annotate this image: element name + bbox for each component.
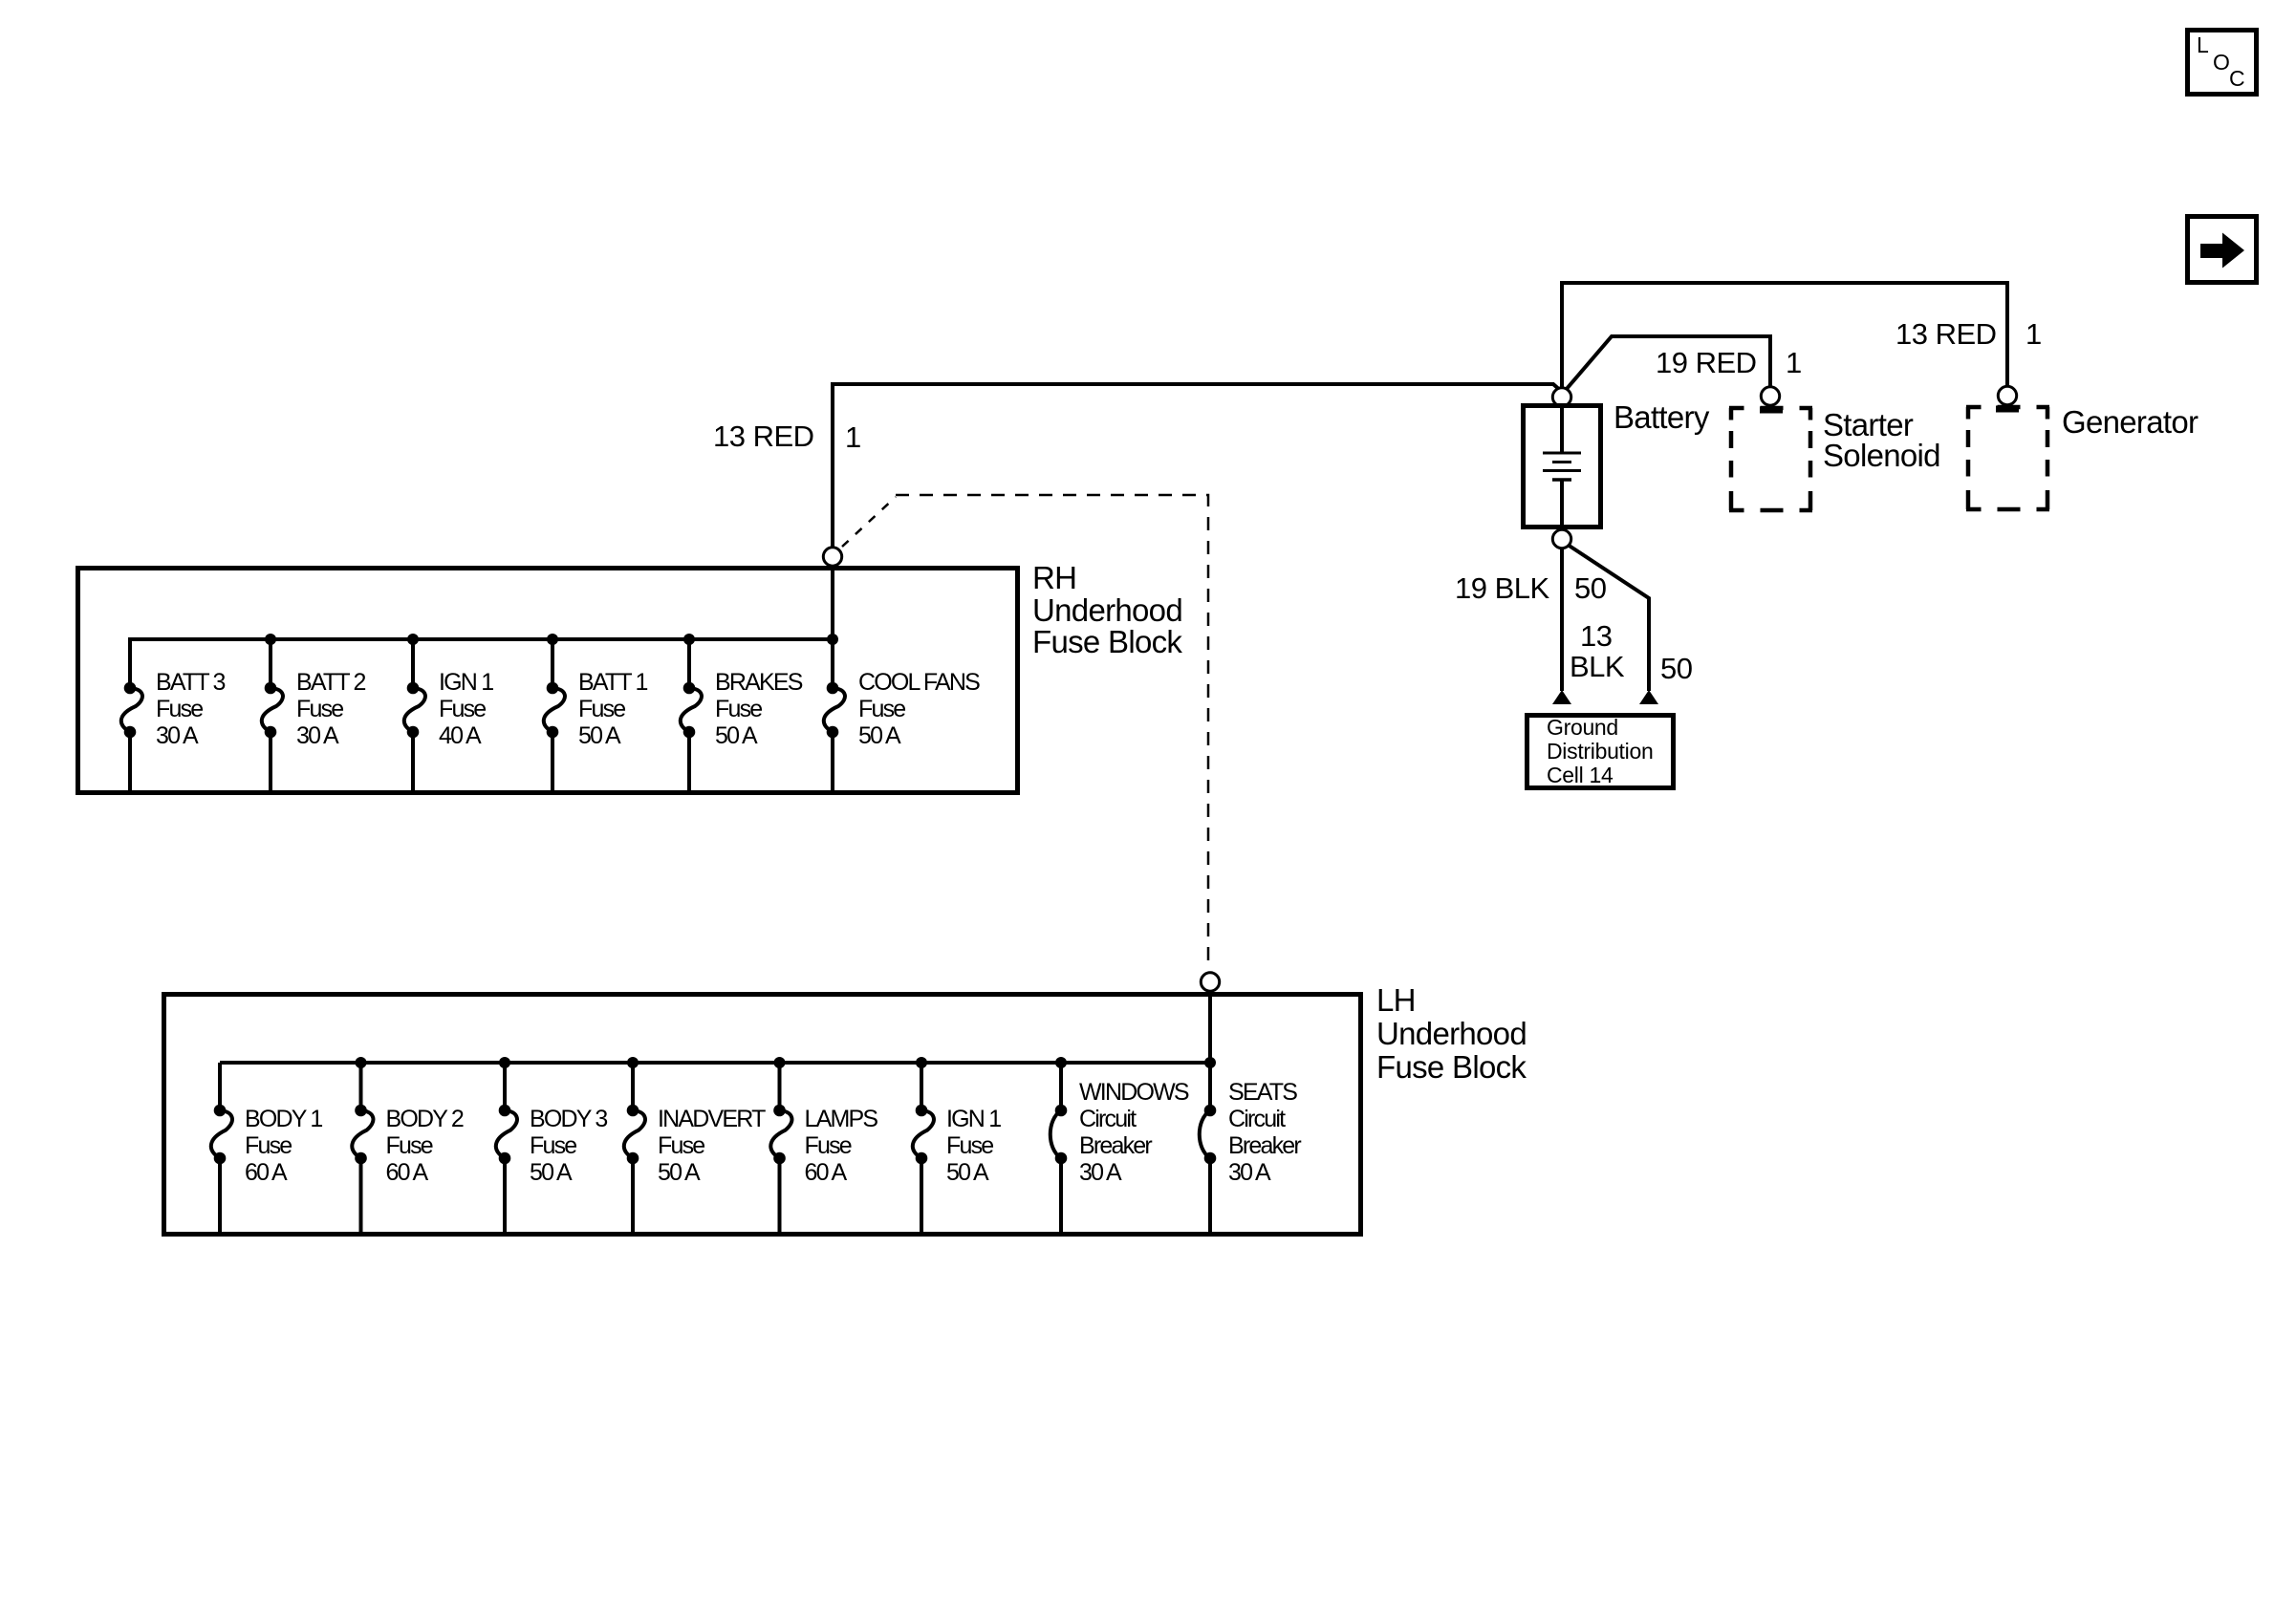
svg-text:RH: RH — [1032, 560, 1076, 595]
svg-text:13: 13 — [1580, 619, 1612, 653]
svg-text:Generator: Generator — [2062, 404, 2199, 440]
svg-text:60 A: 60 A — [245, 1159, 288, 1186]
svg-text:Fuse: Fuse — [946, 1132, 993, 1159]
svg-text:Fuse: Fuse — [296, 696, 343, 722]
svg-text:COOL FANS: COOL FANS — [858, 669, 980, 696]
svg-text:Fuse Block: Fuse Block — [1032, 624, 1182, 659]
svg-text:BODY 1: BODY 1 — [245, 1106, 322, 1132]
svg-text:IGN 1: IGN 1 — [439, 669, 493, 696]
svg-text:19 RED: 19 RED — [1656, 346, 1757, 379]
svg-text:30 A: 30 A — [296, 722, 339, 749]
svg-text:Circuit: Circuit — [1228, 1106, 1286, 1132]
svg-text:40 A: 40 A — [439, 722, 482, 749]
svg-text:LH: LH — [1376, 982, 1416, 1018]
svg-text:30 A: 30 A — [156, 722, 199, 749]
svg-text:50 A: 50 A — [658, 1159, 701, 1186]
svg-text:50: 50 — [1574, 571, 1607, 605]
svg-text:Breaker: Breaker — [1079, 1132, 1152, 1159]
svg-text:Cell 14: Cell 14 — [1547, 763, 1614, 787]
svg-text:50 A: 50 A — [858, 722, 901, 749]
svg-text:Battery: Battery — [1614, 399, 1710, 435]
svg-text:13 RED: 13 RED — [1895, 317, 1997, 351]
svg-text:50 A: 50 A — [946, 1159, 989, 1186]
svg-text:INADVERT: INADVERT — [658, 1106, 766, 1132]
svg-text:IGN 1: IGN 1 — [946, 1106, 1001, 1132]
svg-text:Fuse: Fuse — [245, 1132, 292, 1159]
svg-text:Fuse: Fuse — [386, 1132, 433, 1159]
svg-text:13 RED: 13 RED — [713, 420, 814, 453]
svg-text:L: L — [2197, 32, 2209, 57]
svg-text:19 BLK: 19 BLK — [1455, 571, 1550, 605]
svg-text:1: 1 — [1786, 346, 1802, 379]
svg-text:30 A: 30 A — [1228, 1159, 1271, 1186]
svg-text:LAMPS: LAMPS — [805, 1106, 878, 1132]
svg-text:Solenoid: Solenoid — [1823, 438, 1940, 473]
svg-text:Fuse: Fuse — [858, 696, 905, 722]
svg-text:Breaker: Breaker — [1228, 1132, 1301, 1159]
svg-text:50 A: 50 A — [578, 722, 621, 749]
svg-text:Fuse: Fuse — [156, 696, 203, 722]
svg-text:Fuse: Fuse — [439, 696, 486, 722]
svg-text:Ground: Ground — [1547, 715, 1618, 740]
svg-text:50 A: 50 A — [530, 1159, 573, 1186]
svg-text:C: C — [2229, 66, 2245, 91]
svg-text:50 A: 50 A — [715, 722, 758, 749]
svg-text:SEATS: SEATS — [1228, 1079, 1297, 1106]
svg-text:Fuse: Fuse — [658, 1132, 704, 1159]
svg-text:Fuse: Fuse — [578, 696, 625, 722]
svg-text:BODY 2: BODY 2 — [386, 1106, 464, 1132]
svg-text:Fuse: Fuse — [530, 1132, 576, 1159]
svg-text:Fuse Block: Fuse Block — [1376, 1049, 1527, 1085]
svg-text:1: 1 — [845, 420, 861, 454]
svg-text:BATT 1: BATT 1 — [578, 669, 648, 696]
svg-text:WINDOWS: WINDOWS — [1079, 1079, 1189, 1106]
svg-text:BATT 3: BATT 3 — [156, 669, 226, 696]
svg-text:60 A: 60 A — [805, 1159, 848, 1186]
svg-text:BODY 3: BODY 3 — [530, 1106, 607, 1132]
svg-text:Underhood: Underhood — [1032, 592, 1182, 628]
svg-text:BRAKES: BRAKES — [715, 669, 803, 696]
svg-text:30 A: 30 A — [1079, 1159, 1122, 1186]
svg-text:Distribution: Distribution — [1547, 739, 1653, 764]
svg-text:Fuse: Fuse — [805, 1132, 852, 1159]
svg-text:50: 50 — [1660, 652, 1693, 685]
svg-text:1: 1 — [2025, 317, 2042, 351]
svg-text:Circuit: Circuit — [1079, 1106, 1137, 1132]
svg-text:Underhood: Underhood — [1376, 1016, 1527, 1051]
svg-text:60 A: 60 A — [386, 1159, 429, 1186]
svg-text:BATT 2: BATT 2 — [296, 669, 366, 696]
svg-text:O: O — [2213, 50, 2230, 75]
svg-text:Fuse: Fuse — [715, 696, 762, 722]
svg-text:BLK: BLK — [1570, 650, 1625, 683]
